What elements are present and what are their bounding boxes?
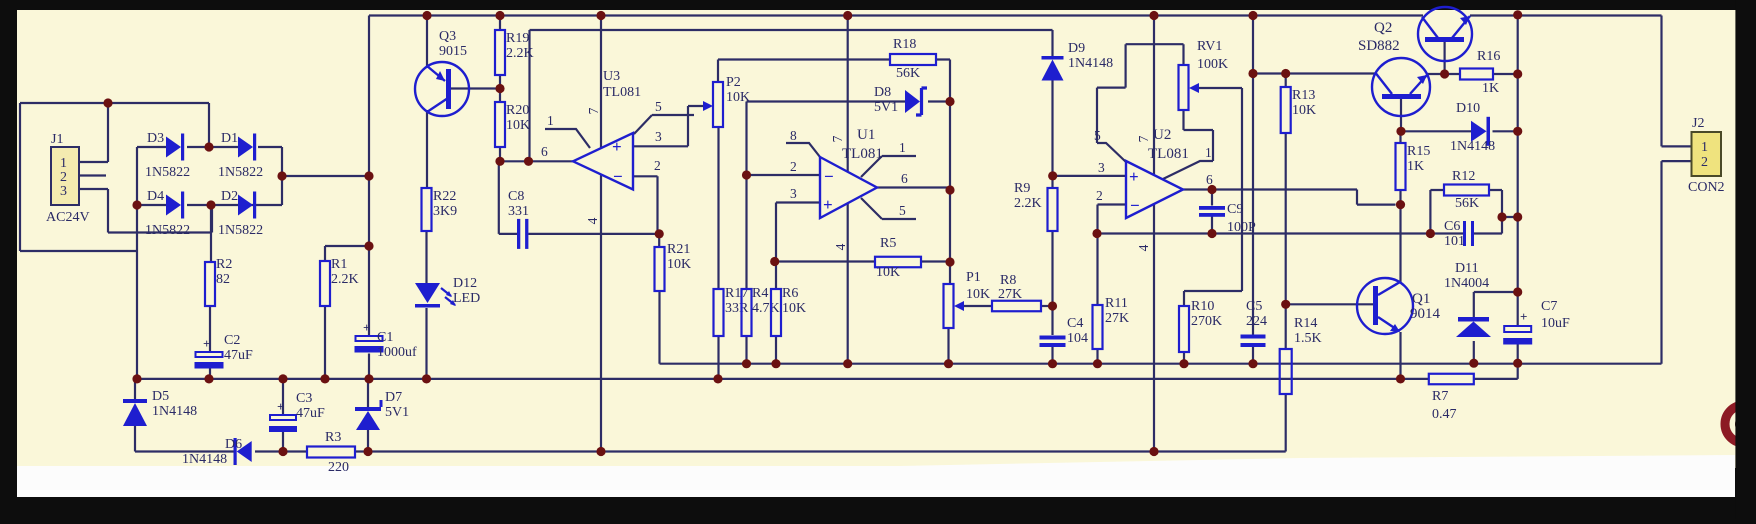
wire R4 bottom lead xyxy=(745,336,747,364)
wire U2 pin4 lead xyxy=(1153,203,1155,452)
svg-text:C2: C2 xyxy=(224,333,240,348)
svg-text:R13: R13 xyxy=(1292,88,1315,103)
wire U2 pin2 link xyxy=(1098,205,1127,306)
wire U1 pin4 lead xyxy=(847,203,849,364)
wire U1 pin8 stub xyxy=(786,143,820,157)
LED D12 xyxy=(415,283,456,308)
svg-text:D11: D11 xyxy=(1455,261,1479,276)
svg-text:2: 2 xyxy=(1096,188,1103,203)
svg-text:1: 1 xyxy=(1701,140,1708,155)
svg-text:RV1: RV1 xyxy=(1197,39,1222,54)
junction R16 right xyxy=(1513,69,1522,78)
wire R6 bottom lead xyxy=(775,336,777,364)
diode D9 xyxy=(1042,56,1064,81)
junction busA C5 xyxy=(1248,359,1257,368)
wire R17 bottom lead xyxy=(717,336,719,379)
wire D11 bottom lead xyxy=(1473,341,1475,363)
diode D1 xyxy=(238,134,256,161)
svg-text:P1: P1 xyxy=(966,270,981,285)
junction busA P1 xyxy=(944,359,953,368)
svg-text:R14: R14 xyxy=(1294,316,1317,331)
svg-text:C5: C5 xyxy=(1246,299,1262,314)
svg-text:0.47: 0.47 xyxy=(1432,407,1457,422)
potentiometer RV1 xyxy=(1179,65,1200,110)
diode D10 xyxy=(1471,117,1490,146)
svg-text:10K: 10K xyxy=(782,301,806,316)
svg-text:C3: C3 xyxy=(296,391,312,406)
svg-text:10uF: 10uF xyxy=(1541,316,1570,331)
capacitor C6 xyxy=(1463,221,1474,246)
svg-text:+: + xyxy=(823,195,833,214)
svg-text:R2: R2 xyxy=(216,257,232,272)
svg-text:C8: C8 xyxy=(508,189,524,204)
wire R5 row xyxy=(775,260,950,262)
junction D4-D2 xyxy=(206,200,215,209)
svg-text:1N5822: 1N5822 xyxy=(145,165,190,180)
wire R12 left bracket xyxy=(1430,190,1444,234)
svg-text:C6: C6 xyxy=(1444,219,1460,234)
svg-text:D4: D4 xyxy=(147,189,164,204)
svg-text:10K: 10K xyxy=(726,90,750,105)
wire U2 pin6 row xyxy=(1183,190,1396,205)
wire Q1 collector lead xyxy=(1399,205,1401,283)
svg-text:1K: 1K xyxy=(1407,159,1424,174)
diode D3 xyxy=(166,134,184,161)
svg-text:+: + xyxy=(277,399,284,414)
wire Q2 emitter to R16 row xyxy=(1427,73,1518,75)
resistor R7 xyxy=(1429,374,1474,385)
transistor Q2 upper xyxy=(1418,7,1472,61)
wire U2 pin7 lead xyxy=(1153,16,1155,175)
wire top supply bus xyxy=(369,14,1662,16)
wire U3 output to D9 link (upper) xyxy=(530,30,1053,161)
resistor R10 xyxy=(1179,306,1189,352)
svg-text:10K: 10K xyxy=(1292,103,1316,118)
capacitor C4 xyxy=(1040,336,1066,348)
wire R13 branch xyxy=(1253,74,1286,88)
svg-text:6: 6 xyxy=(901,171,908,186)
svg-text:270K: 270K xyxy=(1191,314,1222,329)
potentiometer P2 xyxy=(703,82,723,127)
capacitor C7 xyxy=(1503,309,1532,345)
svg-text:Q3: Q3 xyxy=(439,29,456,44)
resistor R9 xyxy=(1048,188,1058,231)
junction D3-D1 xyxy=(204,142,213,151)
wire C8 row xyxy=(499,161,659,234)
wire U2 pin5 staircase xyxy=(1097,44,1184,162)
svg-text:2: 2 xyxy=(790,159,797,174)
svg-text:100P: 100P xyxy=(1227,220,1256,235)
wire top-left AC loop xyxy=(20,103,209,251)
junction busC C3 xyxy=(278,447,287,456)
wire U3 pin3 to P2 wiper xyxy=(633,106,704,146)
wire bridge row D4-D2 xyxy=(137,204,282,206)
wire U3 pin4 lead xyxy=(600,174,602,452)
svg-text:6: 6 xyxy=(1206,172,1213,187)
wire U1 pin1 stub xyxy=(861,156,916,177)
svg-text:1N4148: 1N4148 xyxy=(182,452,227,467)
svg-text:R18: R18 xyxy=(893,37,916,52)
junction busB Q1 xyxy=(1396,374,1405,383)
svg-text:33R: 33R xyxy=(725,301,749,316)
wire R19-R20 column xyxy=(499,16,501,162)
svg-text:2.2K: 2.2K xyxy=(331,272,359,287)
wire R11 bottom xyxy=(1096,349,1098,364)
junction busC U2p4 xyxy=(1149,447,1158,456)
svg-text:LED: LED xyxy=(453,291,480,306)
svg-text:2.2K: 2.2K xyxy=(1014,196,1042,211)
junction R20 out xyxy=(495,157,504,166)
svg-text:1: 1 xyxy=(1205,145,1212,160)
svg-text:C9: C9 xyxy=(1227,202,1243,217)
junction R8 node xyxy=(1048,301,1057,310)
resistor R18 xyxy=(890,54,936,65)
svg-text:1K: 1K xyxy=(1482,81,1499,96)
svg-text:1N5822: 1N5822 xyxy=(218,165,263,180)
svg-text:TL081: TL081 xyxy=(603,85,641,100)
wire bridge row D3-D1 xyxy=(137,146,282,148)
svg-text:R19: R19 xyxy=(506,31,529,46)
wire U3 pin7 lead xyxy=(600,16,602,150)
resistor R11 xyxy=(1093,305,1103,349)
svg-text:1N5822: 1N5822 xyxy=(145,223,190,238)
junction busB C2 xyxy=(204,374,213,383)
junction D11 top xyxy=(1513,287,1522,296)
svg-text:+: + xyxy=(363,320,370,335)
svg-text:3: 3 xyxy=(60,184,67,199)
svg-text:56K: 56K xyxy=(1455,196,1479,211)
junction rail bridge xyxy=(364,171,373,180)
svg-text:CON2: CON2 xyxy=(1688,180,1725,195)
junction top bus U2p7 xyxy=(1149,11,1158,20)
junction Q3 base xyxy=(495,84,504,93)
wire Q2 lower base lead xyxy=(1400,99,1402,131)
junction top bus Q3 xyxy=(422,11,431,20)
op-amp U1 xyxy=(820,157,877,218)
wire bottom bus C xyxy=(135,394,1286,452)
wire Q3 emitter lead xyxy=(426,16,428,69)
svg-text:1: 1 xyxy=(60,156,67,171)
wire Q3 collector to R22 to D12 xyxy=(425,110,428,379)
svg-text:1.5K: 1.5K xyxy=(1294,331,1322,346)
svg-text:R12: R12 xyxy=(1452,169,1475,184)
junction busB D12 xyxy=(422,374,431,383)
wire R1 branch xyxy=(325,246,369,379)
svg-text:1N4004: 1N4004 xyxy=(1444,276,1489,291)
resistor R4 xyxy=(742,289,752,336)
svg-text:R5: R5 xyxy=(880,236,896,251)
svg-text:1N4148: 1N4148 xyxy=(1068,56,1113,71)
resistor R3 xyxy=(307,447,355,458)
svg-text:J2: J2 xyxy=(1692,116,1704,131)
junction U2p2 node xyxy=(1092,229,1101,238)
svg-text:R22: R22 xyxy=(433,189,456,204)
transistor Q3 xyxy=(415,62,469,116)
wire U1 pin6 row xyxy=(877,186,950,188)
wire R15 leads xyxy=(1399,131,1401,204)
junction J1 pin1 xyxy=(103,98,112,107)
resistor R2 xyxy=(205,262,215,306)
wire Q1 base row xyxy=(1286,303,1374,305)
svg-text:4.7K: 4.7K xyxy=(752,301,780,316)
wire U3 output row xyxy=(500,160,573,162)
junction busA R11 xyxy=(1093,359,1102,368)
svg-text:1N5822: 1N5822 xyxy=(218,223,263,238)
junction top bus U1p7 xyxy=(843,11,852,20)
svg-text:82: 82 xyxy=(216,272,230,287)
svg-text:5: 5 xyxy=(655,99,662,114)
junction U1 out xyxy=(945,185,954,194)
wire RV1 bottom to U2 pin1 xyxy=(1163,110,1213,179)
svg-text:R6: R6 xyxy=(782,286,798,301)
junction bridge out xyxy=(277,171,286,180)
junction D10 right xyxy=(1513,127,1522,136)
wire D9-R9-C4 column xyxy=(1051,78,1053,364)
junction busA D11 xyxy=(1469,359,1478,368)
junction Q2 base xyxy=(1440,69,1449,78)
capacitor C9 xyxy=(1199,206,1225,217)
svg-text:D5: D5 xyxy=(152,389,169,404)
wire R8 right xyxy=(1041,305,1053,307)
wire P1 bottom xyxy=(947,328,949,364)
svg-text:2: 2 xyxy=(1701,155,1708,170)
svg-text:3K9: 3K9 xyxy=(433,204,457,219)
wire U3 pin2 link xyxy=(633,176,658,234)
junction busC U3p4 xyxy=(596,447,605,456)
resistor R5 xyxy=(875,257,921,268)
svg-text:1N4148: 1N4148 xyxy=(1450,139,1495,154)
resistor R13 xyxy=(1281,87,1291,133)
junction R5-P1 xyxy=(945,257,954,266)
junction U1p2 node xyxy=(742,170,751,179)
resistor R14 xyxy=(1280,349,1292,394)
wire P2 bottom to R17 xyxy=(717,127,719,289)
svg-text:SD882: SD882 xyxy=(1358,38,1400,54)
wire P1 wiper tail xyxy=(964,305,993,307)
zener diode D7 xyxy=(355,400,381,430)
svg-text:4: 4 xyxy=(1136,244,1151,251)
svg-text:1N4148: 1N4148 xyxy=(152,404,197,419)
svg-text:2: 2 xyxy=(654,158,661,173)
svg-text:D10: D10 xyxy=(1456,101,1480,116)
diode D11 xyxy=(1456,317,1491,337)
junction y73 R13 xyxy=(1281,69,1290,78)
wire J1 pin3 path xyxy=(79,189,212,233)
svg-text:U2: U2 xyxy=(1153,127,1171,143)
wire U2 pin3 row xyxy=(1053,175,1127,177)
junction C6 left xyxy=(1426,229,1435,238)
wire D11 top row xyxy=(1474,292,1518,317)
svg-text:R15: R15 xyxy=(1407,144,1430,159)
svg-text:R8: R8 xyxy=(1000,273,1016,288)
wire R12-C6 right bracket xyxy=(1489,190,1518,234)
red logo watermark xyxy=(1725,0,1756,519)
svg-text:D2: D2 xyxy=(221,189,238,204)
svg-text:4: 4 xyxy=(833,243,848,250)
wire C3 leads xyxy=(282,379,284,452)
wire R10 bottom xyxy=(1183,352,1185,364)
resistor R6 xyxy=(771,289,781,336)
junction busA R10 xyxy=(1179,359,1188,368)
svg-text:9015: 9015 xyxy=(439,44,467,59)
wire U3 pin5 stub xyxy=(634,115,694,134)
wire U1 pin2 row xyxy=(747,174,821,176)
svg-text:J1: J1 xyxy=(51,132,63,147)
capacitor C1 xyxy=(355,320,384,353)
wire right rail to J2 pin1 xyxy=(1662,16,1692,147)
svg-text:6: 6 xyxy=(541,144,548,159)
capacitor C5 xyxy=(1241,335,1266,348)
svg-text:1000uf: 1000uf xyxy=(377,345,417,360)
svg-text:10K: 10K xyxy=(506,118,530,133)
junction neg D4 xyxy=(132,200,141,209)
junction busC D7 xyxy=(363,447,372,456)
resistor R1 xyxy=(320,261,330,306)
resistor R17 xyxy=(714,289,724,336)
junction busA R4 xyxy=(742,359,751,368)
wire C9 feedback row xyxy=(1097,232,1502,234)
svg-text:R10: R10 xyxy=(1191,299,1214,314)
svg-text:10K: 10K xyxy=(876,265,900,280)
svg-text:+: + xyxy=(1520,309,1527,324)
diode D5 xyxy=(123,399,147,426)
wire U1 pin7 lead xyxy=(847,16,849,172)
svg-text:104: 104 xyxy=(1067,331,1088,346)
svg-text:1: 1 xyxy=(899,140,906,155)
capacitor C2 xyxy=(195,336,224,369)
junction R15 bottom xyxy=(1396,200,1405,209)
transistor Q1 xyxy=(1357,278,1413,334)
resistor R20 xyxy=(495,102,505,147)
wire J1 pin1 stub xyxy=(79,103,108,162)
diode D6 xyxy=(234,438,252,465)
svg-text:10K: 10K xyxy=(667,257,691,272)
svg-text:5V1: 5V1 xyxy=(874,100,898,115)
svg-text:U3: U3 xyxy=(603,69,620,84)
junction U1p3 node xyxy=(770,257,779,266)
transistor Q2 lower xyxy=(1372,58,1430,116)
svg-text:Q2: Q2 xyxy=(1374,20,1392,36)
junction busA C4 xyxy=(1048,359,1057,368)
svg-text:2.2K: 2.2K xyxy=(506,46,534,61)
svg-text:D3: D3 xyxy=(147,131,164,146)
junction R13-R14 xyxy=(1281,300,1290,309)
svg-text:P2: P2 xyxy=(726,75,741,90)
junction busB R17 xyxy=(713,374,722,383)
wire J1 pin2 stub xyxy=(79,174,106,176)
svg-text:R4: R4 xyxy=(752,286,768,301)
resistor R15 xyxy=(1396,143,1406,190)
wire U3 pin1 stub xyxy=(545,129,590,148)
connector J1 xyxy=(51,147,79,205)
junction rail R1 xyxy=(364,241,373,250)
wire R13 to node xyxy=(1285,133,1287,304)
svg-text:R20: R20 xyxy=(506,103,529,118)
resistor R8 xyxy=(992,301,1041,312)
wire U1 pin5 stub xyxy=(861,198,916,219)
junction y73 C5col xyxy=(1248,69,1257,78)
junction neg bus xyxy=(132,374,141,383)
junction busA R6 xyxy=(771,359,780,368)
wire bridge output node xyxy=(282,147,369,205)
wire bridge negative rail xyxy=(136,147,138,379)
svg-text:220: 220 xyxy=(328,460,349,475)
junction C9 top xyxy=(1207,185,1216,194)
svg-text:2: 2 xyxy=(60,170,67,185)
svg-text:D6: D6 xyxy=(225,437,242,452)
svg-text:7: 7 xyxy=(1136,135,1151,142)
svg-text:D12: D12 xyxy=(453,276,477,291)
svg-text:D7: D7 xyxy=(385,390,402,405)
svg-text:224: 224 xyxy=(1246,314,1267,329)
junction U2p3 node xyxy=(1048,171,1057,180)
connector J2 xyxy=(1692,132,1722,176)
svg-text:7: 7 xyxy=(586,107,601,114)
resistor R12 xyxy=(1444,185,1489,196)
capacitor C3 xyxy=(269,399,297,432)
svg-text:R3: R3 xyxy=(325,430,341,445)
svg-text:10K: 10K xyxy=(966,287,990,302)
wire C1 lead xyxy=(368,354,370,379)
junction top bus C5col xyxy=(1248,11,1257,20)
op-amp U3 xyxy=(573,133,633,190)
junction Q2l base xyxy=(1396,127,1405,136)
junction R12 node xyxy=(1513,212,1522,221)
junction C9 bottom xyxy=(1207,229,1216,238)
wire feedback column xyxy=(745,102,747,290)
junction busA C7 xyxy=(1513,359,1522,368)
junction C6 right xyxy=(1497,212,1506,221)
wire Q3 base xyxy=(451,87,500,89)
svg-text:8: 8 xyxy=(790,128,797,143)
wire D10 row xyxy=(1401,130,1518,132)
svg-text:C7: C7 xyxy=(1541,299,1557,314)
wire D7 leads xyxy=(367,379,369,452)
wire C9 leads xyxy=(1211,190,1213,234)
svg-text:3: 3 xyxy=(655,129,662,144)
op-amp U2 xyxy=(1126,161,1183,218)
svg-text:C1: C1 xyxy=(377,330,393,345)
svg-text:D9: D9 xyxy=(1068,41,1085,56)
svg-text:−: − xyxy=(824,167,834,186)
svg-text:TL081: TL081 xyxy=(842,146,883,162)
svg-text:Q1: Q1 xyxy=(1412,291,1430,307)
svg-text:5: 5 xyxy=(899,203,906,218)
svg-text:47uF: 47uF xyxy=(296,406,325,421)
wire bus B xyxy=(137,363,1518,379)
junction out row xyxy=(524,157,533,166)
svg-text:3: 3 xyxy=(790,186,797,201)
resistor R22 xyxy=(422,188,432,231)
wire main right vertical xyxy=(1517,15,1519,364)
junction busB R1 xyxy=(320,374,329,383)
svg-text:27K: 27K xyxy=(998,287,1022,302)
wire Q2 upper base xyxy=(1443,40,1445,74)
svg-text:R16: R16 xyxy=(1477,49,1500,64)
wire RV1 wiper to R10 xyxy=(1184,88,1242,306)
svg-text:R1: R1 xyxy=(331,257,347,272)
svg-text:101: 101 xyxy=(1444,234,1465,249)
junction top bus U3p7 xyxy=(596,11,605,20)
junction top bus R19 xyxy=(495,11,504,20)
wire D8 row xyxy=(747,100,951,102)
svg-text:TL081: TL081 xyxy=(1148,146,1189,162)
svg-text:100K: 100K xyxy=(1197,57,1228,72)
potentiometer P1 xyxy=(944,284,965,328)
svg-text:1: 1 xyxy=(547,113,554,128)
junction top bus right xyxy=(1513,10,1522,19)
svg-text:3: 3 xyxy=(1098,160,1105,175)
